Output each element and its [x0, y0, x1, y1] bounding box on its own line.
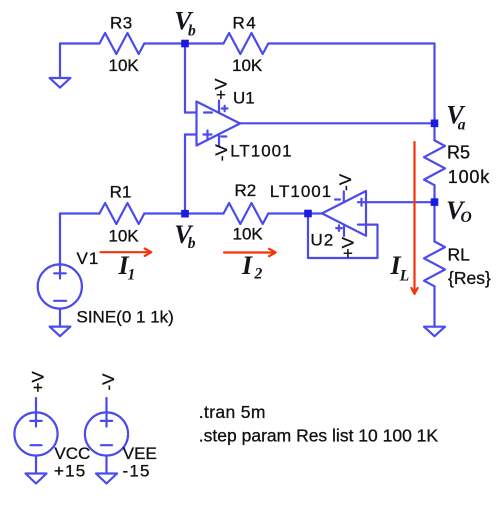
svg-text:R5: R5 [447, 142, 470, 162]
svg-text:+V: +V [212, 78, 231, 100]
svg-text:a: a [458, 117, 466, 134]
svg-text:-V: -V [99, 373, 118, 391]
svg-text:-15: -15 [123, 462, 151, 481]
svg-text:R2: R2 [235, 181, 257, 200]
svg-text:100k: 100k [448, 167, 490, 187]
svg-text:{Res}: {Res} [448, 268, 491, 288]
svg-text:+V: +V [29, 371, 48, 393]
svg-text:SINE(0 1 1k): SINE(0 1 1k) [77, 308, 174, 327]
svg-text:+V: +V [339, 236, 358, 258]
svg-text:R3: R3 [110, 14, 133, 33]
svg-text:1: 1 [128, 267, 136, 284]
svg-text:b: b [188, 235, 196, 252]
svg-text:VEE: VEE [123, 444, 157, 463]
svg-text:U1: U1 [233, 88, 255, 107]
svg-text:.tran 5m: .tran 5m [199, 402, 266, 422]
svg-text:10K: 10K [232, 56, 263, 75]
svg-text:RL: RL [448, 244, 471, 264]
svg-text:I: I [241, 251, 253, 280]
svg-text:10K: 10K [108, 226, 139, 245]
svg-text:U2: U2 [311, 230, 335, 249]
svg-text:+15: +15 [54, 462, 86, 481]
svg-text:.step param Res list 10 100 1K: .step param Res list 10 100 1K [199, 426, 439, 446]
svg-text:R1: R1 [110, 183, 132, 202]
svg-text:2: 2 [254, 266, 263, 283]
svg-text:L: L [399, 267, 409, 284]
svg-text:b: b [188, 22, 196, 39]
svg-text:10K: 10K [233, 225, 264, 244]
svg-text:10K: 10K [109, 56, 140, 75]
svg-text:R4: R4 [233, 14, 258, 33]
svg-text:-V: -V [212, 144, 231, 162]
svg-text:LT1001: LT1001 [230, 142, 292, 161]
svg-text:V1: V1 [77, 249, 100, 268]
svg-text:-V: -V [336, 173, 355, 191]
svg-text:LT1001: LT1001 [270, 182, 332, 201]
svg-text:O: O [461, 209, 472, 226]
svg-text:VCC: VCC [54, 444, 90, 463]
